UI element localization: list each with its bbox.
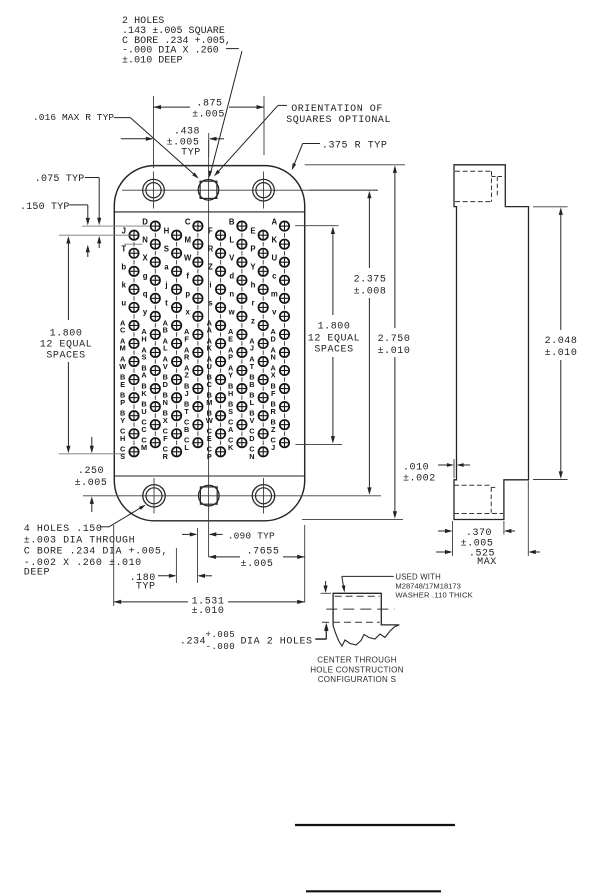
contact column c5 <box>206 226 225 461</box>
contact column c3 <box>163 226 182 461</box>
dimension 1.800 12 equal spaces left <box>67 241 69 320</box>
svg-text:W: W <box>119 362 126 371</box>
svg-text:.7655: .7655 <box>247 546 280 557</box>
svg-text:±.003 DIA THROUGH: ±.003 DIA THROUGH <box>24 535 135 546</box>
svg-text:U: U <box>141 407 146 416</box>
svg-text:H: H <box>164 226 170 235</box>
svg-text:g: g <box>143 271 148 280</box>
top shoulder line <box>114 211 304 213</box>
top right mounting hole <box>253 179 275 201</box>
svg-text:V: V <box>163 362 168 371</box>
extension line top holes centerline right <box>309 189 378 191</box>
svg-text:±.008: ±.008 <box>354 287 387 298</box>
svg-text:S: S <box>142 353 147 362</box>
svg-text:L: L <box>163 344 168 353</box>
svg-text:L: L <box>250 398 255 407</box>
svg-text:h: h <box>251 281 256 290</box>
footer rule lower <box>306 890 441 892</box>
svg-text:H: H <box>141 335 146 344</box>
bottom center square hole with counterbore <box>199 485 220 506</box>
svg-text:1.800: 1.800 <box>50 329 83 340</box>
svg-text:D: D <box>142 217 148 226</box>
svg-text:12 EQUAL: 12 EQUAL <box>308 334 360 345</box>
extension line row13 right <box>295 443 342 445</box>
side view hidden lines top flange <box>455 170 492 172</box>
svg-text:.090 TYP: .090 TYP <box>228 530 275 541</box>
svg-text:.250: .250 <box>78 466 104 477</box>
bottom hole centerline horizontal <box>83 495 381 497</box>
svg-text:C: C <box>207 380 213 389</box>
svg-text:S: S <box>228 407 233 416</box>
svg-text:E: E <box>120 380 125 389</box>
svg-text:d: d <box>229 271 234 280</box>
contact column c8 <box>271 217 290 452</box>
svg-text:2.375: 2.375 <box>354 275 387 286</box>
top center square hole with counterbore <box>198 180 219 201</box>
extension lines and dimension 2.048 <box>533 206 568 208</box>
svg-text:F: F <box>163 434 168 443</box>
bottom right mounting hole <box>252 485 274 507</box>
dimension .370 <box>452 521 454 556</box>
svg-text:P: P <box>228 353 233 362</box>
svg-text:12 EQUAL: 12 EQUAL <box>40 340 92 351</box>
contact column c1 <box>119 226 138 461</box>
bottom shoulder line <box>114 475 304 477</box>
svg-text:B: B <box>163 326 168 335</box>
svg-text:J: J <box>185 389 189 398</box>
svg-text:±.010: ±.010 <box>192 606 225 617</box>
extension line bottom row odd <box>59 453 126 455</box>
svg-text:.234: .234 <box>180 637 206 648</box>
svg-text:m: m <box>271 290 278 299</box>
svg-text:J: J <box>271 443 275 452</box>
svg-text:Z: Z <box>184 371 189 380</box>
svg-text:.875: .875 <box>196 98 222 109</box>
svg-text:N: N <box>142 235 148 244</box>
svg-text:R: R <box>163 452 169 461</box>
svg-text:B: B <box>249 380 254 389</box>
svg-text:w: w <box>228 308 236 317</box>
svg-text:F: F <box>208 226 213 235</box>
svg-text:Y: Y <box>120 416 125 425</box>
svg-text:DIA 2 HOLES: DIA 2 HOLES <box>241 637 313 648</box>
svg-text:B: B <box>184 425 189 434</box>
washer thickness arrows <box>321 592 331 594</box>
svg-text:TYP: TYP <box>181 147 201 158</box>
svg-text:SPACES: SPACES <box>46 351 85 362</box>
svg-text:WASHER .110 THICK: WASHER .110 THICK <box>395 591 473 600</box>
extension line top edge right <box>305 164 405 166</box>
svg-text:T: T <box>184 407 189 416</box>
svg-text:A: A <box>271 217 277 226</box>
svg-text:n: n <box>229 290 234 299</box>
svg-text:K: K <box>228 443 234 452</box>
svg-text:J: J <box>250 344 254 353</box>
svg-text:L: L <box>229 235 234 244</box>
svg-text:R: R <box>271 407 277 416</box>
svg-text:K: K <box>207 344 213 353</box>
svg-text:R: R <box>208 244 214 253</box>
svg-text:j: j <box>164 281 167 290</box>
leader from orientation note to square hole <box>278 104 287 106</box>
svg-text:x: x <box>186 308 191 317</box>
svg-text:N: N <box>271 353 276 362</box>
svg-text:.375 R TYP: .375 R TYP <box>322 141 388 152</box>
washer hidden dashes <box>335 595 380 597</box>
extension line left edge down <box>113 525 115 606</box>
extension line row1 odd <box>59 234 130 236</box>
svg-text:V: V <box>249 416 254 425</box>
svg-text:±.002: ±.002 <box>403 474 436 485</box>
svg-text:±.010: ±.010 <box>378 346 411 357</box>
svg-text:D: D <box>249 434 254 443</box>
svg-text:±.010: ±.010 <box>545 348 578 359</box>
svg-text:D: D <box>271 335 276 344</box>
dimension .250 left <box>91 437 93 448</box>
svg-text:L: L <box>184 443 189 452</box>
svg-text:SPACES: SPACES <box>314 345 353 356</box>
svg-text:Z: Z <box>271 425 276 434</box>
dimension 2.750 right <box>394 170 396 328</box>
svg-text:ORIENTATION OF: ORIENTATION OF <box>291 104 383 115</box>
side view body outline <box>454 165 529 520</box>
contact column c4 <box>184 217 203 452</box>
svg-text:SQUARES OPTIONAL: SQUARES OPTIONAL <box>286 115 391 126</box>
svg-text:CONFIGURATION S: CONFIGURATION S <box>318 675 397 684</box>
extension line col3 down <box>175 548 177 583</box>
extension line bottom edge right <box>302 518 403 520</box>
svg-text:TYP: TYP <box>136 582 156 593</box>
svg-text:USED WITH: USED WITH <box>395 572 441 581</box>
svg-text:C: C <box>141 425 147 434</box>
dimension .875 across top holes <box>153 96 155 168</box>
svg-text:±.005: ±.005 <box>192 109 225 120</box>
svg-text:i: i <box>209 281 211 290</box>
svg-text:T: T <box>121 244 126 253</box>
svg-text:Y: Y <box>250 263 256 272</box>
bottom left mounting hole <box>143 485 165 507</box>
svg-text:t: t <box>165 299 168 308</box>
svg-text:+.005: +.005 <box>206 630 236 640</box>
front view connector body outline <box>114 166 304 521</box>
svg-text:2.750: 2.750 <box>378 334 411 345</box>
contact column c7 <box>249 226 268 461</box>
svg-text:X: X <box>142 253 148 262</box>
svg-text:Z: Z <box>208 263 213 272</box>
svg-text:.438: .438 <box>174 127 200 138</box>
svg-text:2.048: 2.048 <box>545 336 578 347</box>
svg-text:M28748/17M18173: M28748/17M18173 <box>395 581 460 590</box>
svg-text:S: S <box>164 244 169 253</box>
svg-text:b: b <box>121 263 126 272</box>
svg-text:q: q <box>143 290 148 299</box>
svg-text:c: c <box>272 271 277 280</box>
svg-text:p: p <box>185 290 190 299</box>
svg-text:M: M <box>206 398 212 407</box>
svg-text:X: X <box>271 371 276 380</box>
svg-text:B: B <box>229 217 235 226</box>
extension line row1 right <box>295 225 338 227</box>
svg-text:P: P <box>207 452 212 461</box>
svg-text:D: D <box>163 380 168 389</box>
washer torn edge <box>333 625 399 646</box>
svg-text:v: v <box>272 308 277 317</box>
svg-text:E: E <box>250 226 255 235</box>
extension line col4 down <box>197 528 199 583</box>
svg-text:k: k <box>122 281 127 290</box>
svg-text:V: V <box>229 253 235 262</box>
svg-text:P: P <box>120 398 125 407</box>
contact column c6 <box>228 217 247 452</box>
svg-text:E: E <box>207 434 212 443</box>
svg-text:M: M <box>184 235 191 244</box>
svg-text:M: M <box>141 443 147 452</box>
svg-text:.150 TYP: .150 TYP <box>20 202 70 213</box>
svg-text:4 HOLES .150: 4 HOLES .150 <box>24 524 103 535</box>
svg-text:z: z <box>251 317 255 326</box>
contact column c2 <box>141 217 160 452</box>
svg-text:-.000: -.000 <box>206 642 236 652</box>
svg-text:A: A <box>228 425 234 434</box>
extension line right edge down <box>304 525 306 603</box>
svg-text:HOLE CONSTRUCTION: HOLE CONSTRUCTION <box>310 665 404 674</box>
svg-text:J: J <box>122 226 126 235</box>
svg-text:MAX: MAX <box>477 557 497 568</box>
svg-text:X: X <box>163 416 168 425</box>
dimension .438 from left hole to center <box>208 133 210 157</box>
svg-text:F: F <box>184 335 189 344</box>
svg-text:U: U <box>207 362 212 371</box>
leader from .016 note to square hole <box>114 117 130 119</box>
svg-text:1.800: 1.800 <box>318 322 351 333</box>
top hole centerline horizontal <box>122 189 378 191</box>
svg-text:N: N <box>163 398 168 407</box>
footer rule upper <box>295 824 455 826</box>
svg-text:W: W <box>184 253 192 262</box>
side view hidden lines bottom flange <box>454 484 491 486</box>
extension line row1 even <box>82 225 150 227</box>
svg-text:.010: .010 <box>403 463 429 474</box>
svg-text:F: F <box>271 389 276 398</box>
svg-text:C BORE .234 DIA +.005,: C BORE .234 DIA +.005, <box>24 547 168 558</box>
svg-text:u: u <box>121 299 126 308</box>
svg-text:H: H <box>228 389 233 398</box>
leader from 2 HOLES note to square hole <box>226 48 239 50</box>
svg-text:H: H <box>120 434 125 443</box>
extension line row2 even <box>124 243 143 245</box>
svg-text:A: A <box>207 326 213 335</box>
washer detail rectangle <box>333 593 399 625</box>
svg-text:K: K <box>271 235 277 244</box>
svg-text:±.005: ±.005 <box>75 478 108 489</box>
note USED WITH washer leader <box>342 575 394 577</box>
svg-text:DEEP: DEEP <box>24 568 50 579</box>
svg-text:.075 TYP: .075 TYP <box>35 174 85 185</box>
svg-text:T: T <box>250 362 255 371</box>
svg-text:a: a <box>164 263 169 272</box>
dimension 2.375 right <box>368 195 370 268</box>
svg-text:s: s <box>208 299 213 308</box>
svg-text:P: P <box>250 244 255 253</box>
svg-text:f: f <box>186 271 189 280</box>
svg-text:M: M <box>120 344 126 353</box>
svg-text:CENTER THROUGH: CENTER THROUGH <box>317 656 397 665</box>
svg-text:C: C <box>185 217 191 226</box>
svg-text:±.010 DEEP: ±.010 DEEP <box>122 56 183 67</box>
vertical centerline of connector <box>208 140 210 557</box>
dimension .525 MAX <box>527 481 529 556</box>
svg-text:W: W <box>206 416 213 425</box>
svg-text:A: A <box>141 371 147 380</box>
svg-text:U: U <box>271 253 277 262</box>
svg-text:R: R <box>184 353 190 362</box>
svg-text:y: y <box>143 308 148 317</box>
dimension .7655 <box>209 556 240 558</box>
top left mounting hole <box>143 179 165 201</box>
svg-text:K: K <box>141 389 147 398</box>
svg-text:N: N <box>249 452 254 461</box>
svg-text:C: C <box>120 326 126 335</box>
dimension 1.800 12 equal spaces right <box>332 231 334 315</box>
dimension .090 TYP <box>182 533 196 535</box>
svg-text:r: r <box>251 299 254 308</box>
svg-text:.016 MAX R TYP: .016 MAX R TYP <box>33 112 114 123</box>
svg-text:±.005: ±.005 <box>241 559 274 570</box>
svg-text:E: E <box>228 335 233 344</box>
svg-text:Y: Y <box>228 371 233 380</box>
dimension 1.531 <box>114 601 188 603</box>
